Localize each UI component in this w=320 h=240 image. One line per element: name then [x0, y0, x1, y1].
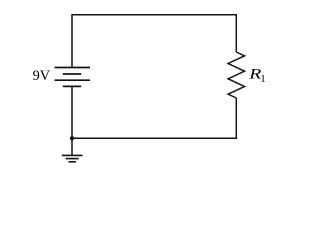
svg-text:1: 1 — [260, 73, 266, 85]
svg-text:9V: 9V — [33, 68, 51, 84]
